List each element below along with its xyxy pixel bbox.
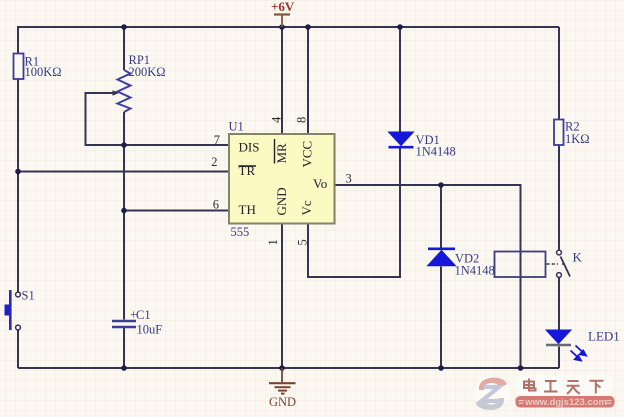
svg-text:1KΩ: 1KΩ: [565, 132, 590, 146]
svg-text:VCC: VCC: [300, 141, 315, 168]
svg-text:TR: TR: [239, 163, 256, 178]
svg-text:7: 7: [214, 133, 220, 147]
svg-text:www.dgjs123.com: www.dgjs123.com: [524, 397, 607, 408]
svg-text:MR: MR: [274, 143, 289, 164]
svg-text:1: 1: [266, 239, 280, 245]
svg-text:5: 5: [296, 239, 310, 245]
svg-text:200KΩ: 200KΩ: [129, 65, 166, 79]
svg-text:C1: C1: [136, 308, 151, 322]
svg-text:6: 6: [213, 198, 219, 212]
svg-text:DIS: DIS: [239, 140, 260, 155]
svg-text:K: K: [573, 250, 583, 265]
svg-text:3: 3: [346, 172, 352, 186]
svg-text:S1: S1: [22, 289, 35, 303]
svg-text:8: 8: [295, 117, 309, 123]
svg-text:2: 2: [211, 155, 217, 169]
svg-text:Vc: Vc: [299, 200, 314, 215]
svg-text:4: 4: [270, 116, 284, 123]
svg-text:1N4148: 1N4148: [455, 264, 495, 278]
svg-text:Vo: Vo: [313, 176, 327, 191]
svg-text:1N4148: 1N4148: [416, 145, 456, 159]
svg-text:100KΩ: 100KΩ: [25, 65, 62, 79]
svg-text:LED1: LED1: [588, 329, 620, 344]
svg-text:+6V: +6V: [271, 0, 295, 14]
svg-text:10uF: 10uF: [137, 323, 163, 337]
svg-text:GND: GND: [269, 395, 296, 409]
svg-text:GND: GND: [274, 187, 289, 215]
svg-text:U1: U1: [229, 120, 244, 134]
svg-text:555: 555: [231, 225, 250, 239]
svg-text:TH: TH: [239, 202, 256, 217]
